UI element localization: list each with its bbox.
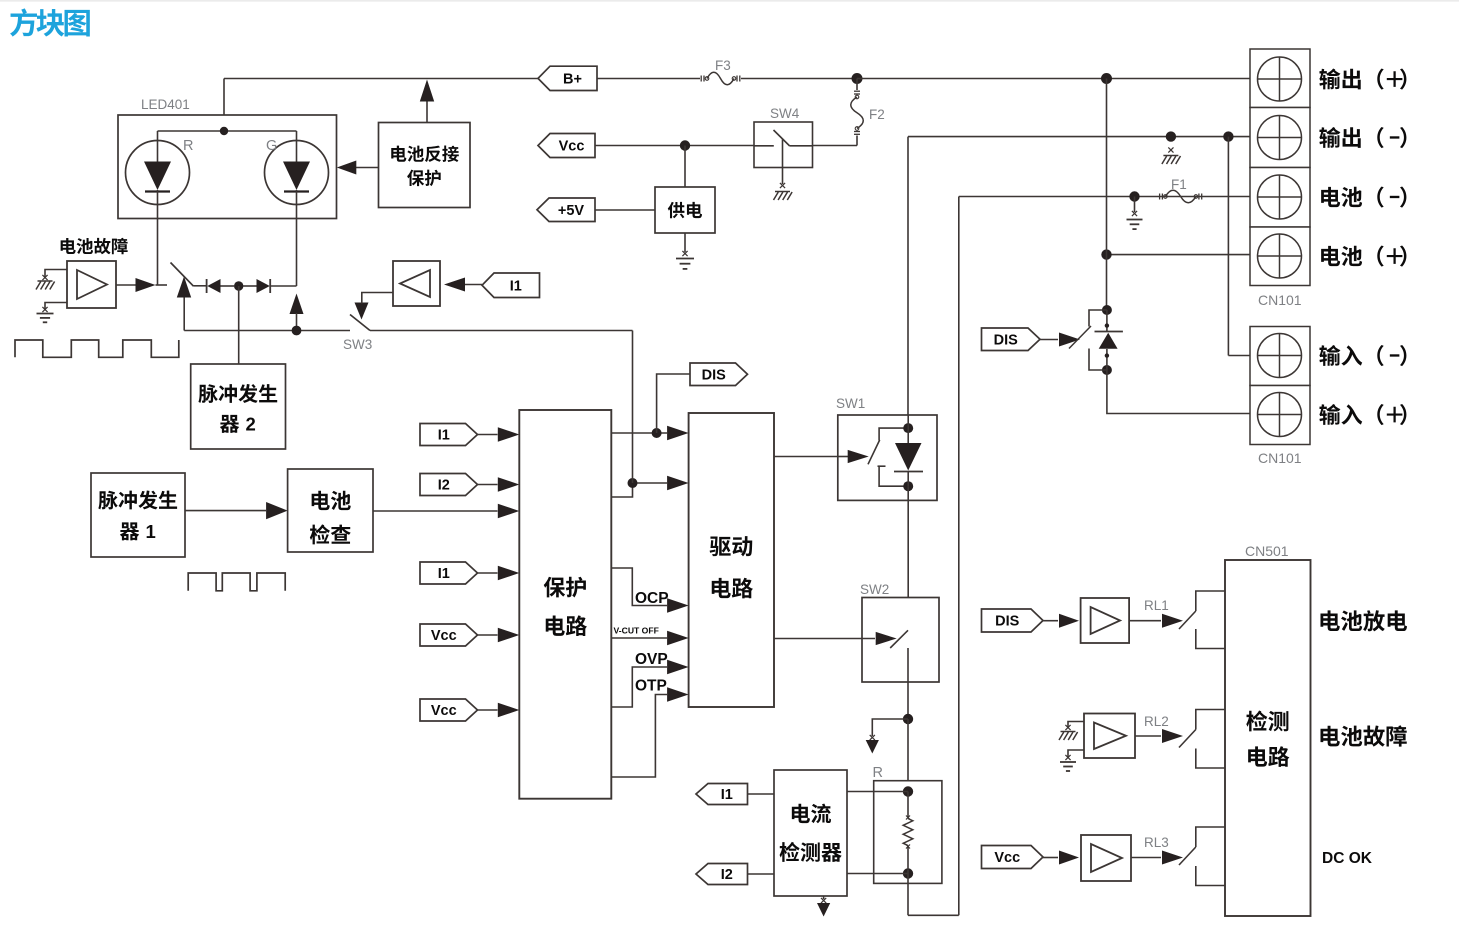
- arrow SW1 control: [848, 450, 869, 463]
- node G junction on bus: [292, 326, 302, 336]
- svg-text:RL3: RL3: [1144, 835, 1169, 850]
- switch blade (LED R): [171, 263, 194, 287]
- block 脉冲发生器1: [91, 473, 185, 557]
- label OCP: [635, 590, 669, 607]
- node diode junction: [234, 281, 243, 290]
- svg-text:OCP: OCP: [635, 590, 669, 607]
- tag DIS (discharge): [982, 328, 1041, 351]
- label 电池放电: [1320, 610, 1407, 631]
- wire LED R cathode down: [157, 205, 159, 286]
- wire detector to R bottom: [847, 873, 908, 875]
- fuse F1: [1160, 190, 1202, 203]
- wire SW3 bus drop: [632, 331, 634, 484]
- title 方块图: [10, 8, 90, 36]
- page top border: [0, 0, 1459, 2]
- tag +5V: [537, 198, 595, 222]
- wire I2 to detector: [748, 873, 775, 875]
- wire SW1 chain up: [907, 137, 909, 415]
- waveform square wave 2: [188, 573, 285, 591]
- svg-text:2: 2: [246, 414, 256, 435]
- block LED401 box: [118, 115, 337, 219]
- resistor R: [903, 792, 913, 874]
- arrow DIS gate: [1040, 333, 1080, 347]
- switch SW4: [754, 130, 813, 200]
- wire Vcc in4: [478, 628, 520, 643]
- svg-text:CN101: CN101: [1258, 450, 1302, 466]
- wire transistor to input+: [1107, 370, 1250, 414]
- svg-text:+5V: +5V: [558, 203, 585, 219]
- wire +5V to 供电: [595, 209, 655, 211]
- label CN501: [1245, 543, 1289, 559]
- op-amp RL2 buffer: [1084, 714, 1135, 759]
- wire SW1 bottom bracket: [878, 466, 909, 486]
- connector CN101 pole 输入(+): [1250, 386, 1310, 445]
- switch SW1 blade: [868, 440, 880, 464]
- wire Vcc to SW4: [595, 145, 754, 147]
- wire right sense drop: [958, 197, 960, 916]
- svg-text:CN501: CN501: [1245, 543, 1289, 559]
- op-amp U_inv buffer: [393, 261, 440, 306]
- svg-text:F3: F3: [715, 58, 731, 73]
- wire to LED R: [157, 131, 159, 142]
- block SW4 box: [754, 122, 813, 168]
- wire 供电 ground: [676, 233, 694, 269]
- wire junction to F2: [856, 79, 858, 91]
- node R top: [903, 786, 913, 796]
- label 电池(-): [1321, 186, 1406, 207]
- svg-text:SW2: SW2: [860, 582, 889, 597]
- fuse F3: [701, 72, 740, 85]
- switch SW3 blade: [350, 315, 370, 331]
- label OTP: [635, 678, 667, 695]
- wire RL2 in2 + earth ground: [1060, 750, 1084, 771]
- tag Vcc (top): [538, 134, 595, 158]
- tag I1 (detector): [696, 784, 748, 805]
- diode D-right: [257, 279, 297, 293]
- tag I2 (detector): [696, 864, 748, 885]
- block 供电: [655, 187, 715, 233]
- label 电池故障 (right): [1320, 725, 1406, 746]
- label CN101 (upper): [1258, 292, 1302, 308]
- svg-text:1: 1: [146, 521, 156, 542]
- wire blade to diode: [194, 285, 207, 287]
- wire output- rail: [908, 136, 1250, 138]
- tag I2 (prot in2): [420, 474, 478, 496]
- connector CN101 pole 输入(-): [1250, 327, 1310, 386]
- block 电流检测器: [774, 770, 847, 896]
- thyristor SW1 diode: [894, 415, 923, 486]
- svg-text:SW3: SW3: [343, 337, 372, 352]
- node SW1 top: [903, 423, 913, 433]
- svg-text:RL2: RL2: [1144, 714, 1169, 729]
- wire I2 in2: [478, 477, 520, 492]
- tag B+: [538, 66, 597, 90]
- svg-text:F1: F1: [1171, 177, 1187, 192]
- tag I1 (top): [482, 273, 540, 298]
- svg-text:I1: I1: [721, 787, 733, 803]
- diode D_body: [1095, 332, 1123, 349]
- svg-text:I2: I2: [438, 478, 450, 494]
- block 保护电路: [519, 410, 611, 799]
- transistor Q1 (discharge): [1069, 305, 1112, 375]
- wire F3 to junction: [741, 78, 857, 80]
- tag DIS (RL1): [982, 609, 1044, 632]
- connector CN101 pole 输出(-): [1250, 108, 1310, 168]
- wire junction to right rail: [857, 78, 1250, 80]
- svg-text:RL1: RL1: [1144, 598, 1169, 613]
- node out- gnd junction: [1166, 131, 1176, 141]
- svg-text:Vcc: Vcc: [431, 703, 457, 719]
- wire sense branch: [866, 719, 908, 754]
- wire battery+ rail: [1107, 254, 1251, 256]
- wire battery- rail: [959, 196, 1250, 198]
- label 输入(-): [1319, 345, 1406, 366]
- wire B+ to fuse F3: [597, 78, 700, 80]
- block 电池反接保护: [379, 123, 471, 208]
- node junction SW3 bus: [628, 478, 638, 488]
- node Vcc junction: [680, 140, 690, 150]
- svg-text:Vcc: Vcc: [431, 628, 457, 644]
- earth ground bat-: [1127, 197, 1143, 230]
- wire prot-drive 2: [611, 476, 688, 497]
- wire detector to R top: [847, 791, 908, 793]
- node junction DIS drop: [652, 428, 662, 438]
- wire Vcc in5: [478, 703, 520, 718]
- block R box: [874, 781, 942, 884]
- block 电池检查: [288, 469, 373, 552]
- relay RL1 contact: [1179, 591, 1225, 649]
- wire drive to SW1: [774, 456, 848, 458]
- node junction rail/output+: [1101, 73, 1112, 84]
- label CN101 (lower): [1258, 450, 1302, 466]
- tag Vcc (RL3): [982, 846, 1044, 869]
- switch SW2 blade: [890, 630, 908, 648]
- block SW2 box: [862, 598, 939, 683]
- wire B+ rail left: [224, 78, 538, 80]
- label RL1: [1144, 598, 1169, 613]
- label F3: [715, 58, 731, 73]
- wire V-CUT OFF: [611, 631, 688, 646]
- svg-text:SW4: SW4: [770, 106, 800, 121]
- wire SW2 to R: [907, 719, 909, 792]
- wire detector down arrow: [817, 896, 830, 917]
- block 驱动电路: [689, 413, 774, 707]
- arrow control LED-R switch: [177, 277, 191, 331]
- svg-text:DIS: DIS: [994, 332, 1019, 348]
- svg-text:G: G: [266, 138, 277, 154]
- wire rail down into LED401: [223, 79, 225, 132]
- svg-text:DC OK: DC OK: [1322, 850, 1373, 867]
- op-amp RL1 buffer: [1081, 598, 1130, 643]
- wire I1 to detector: [748, 793, 775, 795]
- arrow DIS to RL1 buffer: [1043, 614, 1079, 628]
- svg-text:DIS: DIS: [702, 367, 727, 383]
- svg-text:I2: I2: [721, 867, 733, 883]
- label 输出(-): [1319, 127, 1406, 148]
- wire Vcc junction down to 供电: [684, 146, 686, 188]
- wire SW3 bus right: [370, 330, 633, 332]
- label R: [873, 765, 883, 781]
- wire SW1 to SW2: [907, 486, 909, 630]
- LED R: [126, 141, 190, 205]
- svg-text:SW1: SW1: [836, 396, 865, 411]
- wire OVP: [611, 660, 688, 707]
- label 电池故障: [61, 238, 128, 254]
- label SW3: [343, 337, 372, 352]
- arrow into LED G line: [290, 294, 304, 331]
- svg-text:I1: I1: [438, 566, 450, 582]
- wire to LED G: [296, 131, 298, 142]
- wire drive to SW2: [774, 638, 875, 640]
- label DC OK: [1322, 850, 1373, 867]
- svg-text:F2: F2: [869, 107, 885, 122]
- svg-text:R: R: [873, 765, 883, 781]
- wire junction to diode right: [243, 285, 257, 287]
- wire OTP: [611, 687, 688, 777]
- wire RL1 buffer out: [1129, 614, 1183, 628]
- wire fault buffer out arrow: [116, 278, 167, 292]
- wire fault buffer in2 + earth ground: [37, 303, 68, 323]
- relay RL3 contact: [1179, 827, 1225, 886]
- wire R below: [907, 874, 909, 916]
- wire pulse2 drop: [238, 286, 240, 364]
- waveform square wave 1: [15, 340, 179, 357]
- label RL2: [1144, 714, 1169, 729]
- block 检测电路 CN501: [1225, 560, 1311, 916]
- label F2: [869, 107, 885, 122]
- fuse F2: [851, 91, 864, 134]
- wire protect left arrow: [337, 161, 379, 175]
- svg-text:OVP: OVP: [635, 651, 668, 668]
- label G: [266, 138, 277, 154]
- svg-text:I1: I1: [510, 278, 522, 294]
- label R: [183, 138, 193, 154]
- node bat- junction: [1129, 191, 1139, 201]
- svg-text:R: R: [183, 138, 193, 154]
- wire SW1 top bracket: [879, 428, 908, 440]
- label V-CUT OFF: [614, 626, 659, 636]
- svg-text:Vcc: Vcc: [994, 850, 1020, 866]
- wire LED G cathode down: [296, 205, 298, 287]
- svg-text:I1: I1: [438, 428, 450, 444]
- label OVP: [635, 651, 668, 668]
- wire out- branch down: [1228, 137, 1250, 356]
- op-amp U_fault buffer: [67, 261, 116, 308]
- tag I1 (prot in3): [420, 562, 478, 584]
- svg-text:LED401: LED401: [141, 97, 190, 112]
- svg-text:DIS: DIS: [995, 614, 1020, 630]
- label 输出(+): [1319, 68, 1406, 89]
- label SW1: [836, 396, 865, 411]
- tag Vcc (prot in4): [420, 624, 478, 646]
- relay RL2 contact: [1179, 710, 1225, 769]
- label SW4: [770, 106, 800, 121]
- wire RL2 in1 + chassis ground: [1059, 722, 1084, 741]
- arrow SW2 control: [876, 632, 897, 645]
- wire prot-drive 1: [611, 426, 688, 441]
- wire bottom return: [908, 914, 959, 916]
- svg-text:B+: B+: [563, 72, 582, 88]
- label LED401: [141, 97, 190, 112]
- wire I1 in1: [478, 427, 520, 442]
- arrow Vcc to RL3 buffer: [1043, 851, 1079, 865]
- wire SW2 below blade: [907, 648, 909, 719]
- svg-text:Vcc: Vcc: [559, 139, 585, 155]
- wire rail down to transistor: [1106, 79, 1108, 311]
- tag Vcc (prot in5): [420, 699, 478, 721]
- node sense junction: [903, 714, 913, 724]
- label RL3: [1144, 835, 1169, 850]
- node LED common junction: [220, 127, 228, 135]
- svg-text:OTP: OTP: [635, 678, 667, 695]
- label F1: [1171, 177, 1187, 192]
- op-amp RL3 buffer: [1081, 835, 1131, 881]
- wire SW4 to F2: [813, 136, 858, 146]
- arrow into inv buffer: [444, 278, 482, 292]
- svg-text:CN101: CN101: [1258, 292, 1302, 308]
- wire RL3 buffer out: [1131, 851, 1183, 865]
- wire I1 in3: [478, 566, 520, 581]
- label 输入(+): [1319, 404, 1406, 425]
- node junction B+/F2: [852, 73, 863, 84]
- arrow SW3 control: [355, 293, 394, 320]
- wire RL2 buffer out: [1135, 729, 1183, 743]
- label 电池(+): [1321, 245, 1406, 266]
- label SW2: [860, 582, 889, 597]
- wire SW3 bus: [184, 330, 350, 332]
- node out- branch junction: [1223, 131, 1233, 141]
- wire fault buffer in1 + chassis ground: [36, 270, 67, 290]
- wire protect up arrow: [420, 80, 434, 123]
- connector CN101 pole 电池(-): [1250, 168, 1310, 228]
- diode D-left: [207, 279, 234, 293]
- wire OCP: [611, 568, 688, 613]
- tag I1 (prot in1): [420, 424, 478, 446]
- wire 电池检查 to 保护电路: [373, 504, 519, 519]
- wire LED common top: [158, 130, 297, 132]
- block SW1 box: [838, 415, 937, 500]
- wire pulse1 to check: [185, 502, 288, 519]
- LED G: [265, 141, 329, 205]
- connector CN101 pole 电池(+): [1250, 227, 1310, 286]
- tag DIS (top): [690, 363, 748, 386]
- connector CN101 pole 输出(+): [1250, 49, 1310, 108]
- svg-text:V-CUT OFF: V-CUT OFF: [614, 626, 659, 636]
- wire DIS drop: [657, 374, 690, 433]
- chassis ground out-: [1162, 147, 1181, 164]
- node bat+ junction: [1101, 249, 1111, 259]
- block 脉冲发生器2: [191, 364, 286, 449]
- node R bottom: [903, 868, 913, 878]
- node SW1 bottom: [903, 481, 913, 491]
